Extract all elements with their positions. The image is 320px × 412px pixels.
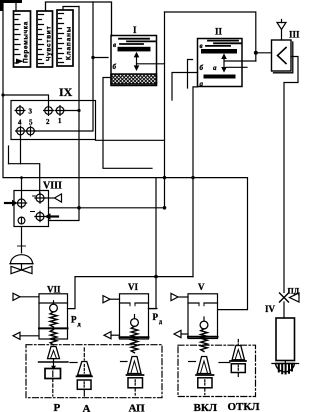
svg-text:I: I bbox=[133, 25, 137, 35]
svg-text:Перемычка: Перемычка bbox=[23, 21, 30, 63]
wire from block I membrane down and right bbox=[103, 78, 152, 169]
block VIII box bbox=[14, 191, 49, 227]
svg-text:2: 2 bbox=[46, 118, 50, 126]
A seat bbox=[77, 375, 93, 377]
svg-text:IV: IV bbox=[265, 304, 276, 314]
svg-text:а: а bbox=[200, 80, 204, 88]
VII spring lower bbox=[50, 330, 57, 345]
V vent in triangle bbox=[171, 293, 188, 300]
net V3: block II bottom to V feed line bbox=[193, 87, 198, 277]
label Pd VII bbox=[71, 315, 81, 329]
turbine symbol bbox=[272, 361, 299, 374]
indicator G2 (Чувствит) bbox=[37, 11, 53, 67]
wire bus y=95 into terminal 2 bbox=[3, 95, 49, 107]
V spring bbox=[201, 329, 208, 352]
label VI bbox=[128, 282, 138, 292]
junction wire A / VIII stub bbox=[21, 178, 23, 200]
indicator G3 (Клапаны) bbox=[57, 10, 73, 66]
block III vent triangle bbox=[277, 20, 286, 41]
junction (79,110.5) bbox=[77, 109, 80, 112]
OTKL stem bottom bbox=[237, 373, 239, 377]
block II label bbox=[215, 27, 223, 37]
wire y=163.7 to VIII circle B bbox=[9, 164, 40, 195]
block I black bar bbox=[118, 47, 151, 52]
wire L1: VIII to x=164.5 bbox=[49, 207, 165, 209]
wire A: from indicator 1 down left edge, across y=177.5, to block V input bbox=[3, 3, 248, 310]
label IV bbox=[265, 304, 276, 314]
block V box bbox=[188, 294, 218, 339]
label 2 bbox=[46, 118, 50, 126]
svg-text:Чувствит: Чувствит bbox=[46, 26, 53, 61]
block II letter б bbox=[200, 64, 204, 72]
svg-text:АП: АП bbox=[129, 403, 146, 412]
PD valve triangle bbox=[290, 293, 300, 302]
cylinder IV bbox=[276, 318, 295, 361]
VI spring bbox=[131, 326, 138, 352]
block I letter в bbox=[113, 41, 116, 49]
svg-text:VIII: VIII bbox=[43, 181, 62, 192]
AP tick left bbox=[121, 361, 128, 363]
VIII input arrow left bbox=[5, 200, 18, 207]
AP box bbox=[128, 378, 143, 388]
AP seat bbox=[127, 374, 144, 376]
OTKL seat bbox=[230, 360, 246, 362]
svg-text:IX: IX bbox=[59, 85, 73, 99]
VII vent in triangle bbox=[13, 293, 39, 300]
label 3 bbox=[29, 108, 33, 116]
block II letter а bottom bbox=[200, 80, 204, 88]
svg-text:в: в bbox=[113, 41, 116, 49]
label AP bbox=[129, 403, 146, 412]
label V bbox=[198, 282, 205, 292]
feed line W_V y=276.6 bbox=[68, 277, 194, 309]
block III output wire down to PD valve bbox=[284, 57, 298, 293]
block II left input wire bbox=[172, 73, 198, 101]
svg-text:А: А bbox=[83, 403, 91, 412]
block II box bbox=[198, 39, 243, 87]
vertical net x=164.5 (blockI/II to L1) bbox=[164, 12, 166, 208]
VIII right arrow bbox=[45, 213, 59, 220]
control valve body (bowtie) bbox=[11, 264, 32, 274]
block III box (relay amplifier) bbox=[272, 40, 293, 73]
wire from G2 top to x=93 drop bbox=[46, 2, 112, 36]
svg-text:VII: VII bbox=[47, 285, 61, 295]
svg-text:а: а bbox=[213, 64, 217, 72]
label OTKL bbox=[228, 401, 261, 412]
svg-text:1: 1 bbox=[58, 117, 62, 125]
block III label bbox=[289, 30, 300, 40]
block II output wires bbox=[225, 61, 256, 67]
svg-text:д: д bbox=[78, 322, 81, 328]
terminal 4 bbox=[16, 126, 26, 136]
wire stub x=8.5 bbox=[8, 146, 10, 164]
OTKL box bbox=[231, 364, 245, 373]
terminal 1 bbox=[55, 106, 65, 116]
terminal 2 bbox=[44, 106, 54, 116]
VIII circle A (with input arrow P) bbox=[16, 198, 26, 208]
block IX box bbox=[11, 101, 96, 140]
svg-text:Р: Р bbox=[153, 312, 159, 322]
block II flapper arrow bbox=[221, 53, 227, 72]
A box bbox=[77, 380, 91, 389]
junction at (3,95) bbox=[1, 93, 4, 96]
block II letter а mid bbox=[213, 64, 217, 72]
wire from G3 top over to vertical x=79 bbox=[63, 7, 79, 11]
VI poppet circle bbox=[131, 315, 139, 327]
junction dot (255.8,52.8) bbox=[254, 51, 258, 55]
svg-text:3: 3 bbox=[29, 108, 33, 116]
stub wire into block I left at y=57.5 bbox=[93, 57, 108, 59]
VI vent in triangle bbox=[103, 296, 120, 303]
block VI box bbox=[120, 294, 149, 339]
VKL stem bottom bbox=[204, 388, 206, 395]
V poppet circle bbox=[200, 317, 208, 329]
OTKL plug cone bbox=[232, 346, 244, 360]
P dashed stem bbox=[52, 379, 54, 397]
OTKL dashed stem top bbox=[237, 340, 239, 346]
wire PD to cylinder bbox=[283, 302, 285, 318]
PD valve X bbox=[280, 293, 289, 302]
junction dot (164.5,177.6) bbox=[163, 176, 166, 179]
svg-text:ВКЛ: ВКЛ bbox=[194, 402, 218, 412]
vertical bus x=79 from G3 to VIII block bbox=[49, 7, 80, 221]
dash marks inside VIII bbox=[31, 196, 36, 212]
label P bbox=[54, 402, 61, 412]
svg-text:V: V bbox=[198, 282, 205, 292]
dashed enclosure 1 (P A AP) bbox=[26, 345, 162, 398]
label A bbox=[83, 403, 91, 412]
block I label bbox=[133, 25, 137, 35]
block II black bar bbox=[201, 49, 237, 54]
VKL tick left bbox=[189, 361, 196, 363]
control valve stem bbox=[18, 227, 26, 253]
label 5 bbox=[29, 119, 33, 127]
OTKL tick left bbox=[219, 362, 230, 364]
VII spring upper bbox=[50, 312, 57, 327]
V vent out triangle bbox=[174, 330, 188, 337]
VII plug cone bbox=[48, 347, 60, 359]
block I nozzle lines bbox=[119, 39, 155, 44]
label 4 bbox=[18, 119, 22, 127]
block I flapper arrow bbox=[134, 52, 140, 71]
VIII vent line and triangle bbox=[44, 194, 62, 202]
junction (79,207.8) bbox=[77, 206, 81, 210]
AP plug cone bbox=[128, 357, 141, 374]
svg-text:5: 5 bbox=[29, 119, 33, 127]
VIII circle B (to vent) bbox=[35, 193, 45, 203]
VIII circle D (to valve) bbox=[18, 217, 25, 224]
VIII circle C (with input arrow from right) bbox=[35, 211, 45, 221]
label Pd VI bbox=[153, 312, 163, 326]
junction dot (193,177.6) bbox=[191, 176, 194, 179]
control valve actuator dome bbox=[10, 255, 33, 264]
svg-text:II: II bbox=[215, 27, 223, 37]
junction (156,276.6) bbox=[154, 275, 158, 279]
junction (93,57.5) bbox=[91, 56, 94, 59]
block VII box bbox=[39, 294, 68, 339]
VII vent out triangle bbox=[13, 332, 39, 339]
VKL plug cone bbox=[197, 357, 210, 374]
VII stem to switch box bbox=[51, 359, 56, 370]
A stem bottom bbox=[83, 389, 85, 396]
VKL box bbox=[198, 378, 212, 388]
net V_b x=156 from wire A to VI bbox=[149, 178, 157, 309]
VI vent out triangle bbox=[104, 332, 120, 339]
block II б stub bbox=[188, 60, 193, 89]
wire IX box bottom extension to x=164.5 bbox=[96, 139, 165, 141]
block I letter б bbox=[113, 63, 117, 71]
A plug cone bbox=[78, 362, 91, 376]
svg-text:б: б bbox=[200, 64, 204, 72]
corner smudge bbox=[0, 0, 22, 11]
junction (21.5,177.6) bbox=[20, 176, 23, 179]
svg-text:д: д bbox=[159, 320, 162, 326]
svg-text:Клапаны: Клапаны bbox=[66, 26, 73, 60]
svg-text:VI: VI bbox=[128, 282, 138, 292]
VII seat line bbox=[39, 361, 69, 363]
svg-text:б: б bbox=[113, 63, 117, 71]
svg-text:ОТКЛ: ОТКЛ bbox=[228, 401, 261, 412]
block II bottom bar bbox=[204, 75, 236, 79]
switch box P bbox=[45, 369, 61, 379]
wire into block III bbox=[256, 52, 272, 54]
block II nozzle lines bbox=[206, 41, 241, 46]
label IX bbox=[59, 85, 73, 99]
A tick left bbox=[70, 362, 77, 364]
VI right tick bbox=[149, 308, 158, 310]
label VII bbox=[47, 285, 61, 295]
block I membrane (hatched) bbox=[111, 74, 157, 84]
svg-text:в: в bbox=[200, 42, 203, 50]
junction dot L1 end bbox=[163, 206, 167, 210]
AP stem bottom bbox=[134, 388, 136, 395]
block I box bbox=[111, 36, 157, 86]
terminal 3 bbox=[15, 106, 25, 116]
wire drop x=93 to circle 5 bbox=[34, 2, 93, 131]
terminal 5 bbox=[26, 126, 36, 136]
svg-text:III: III bbox=[289, 30, 300, 40]
VII poppet circle bbox=[50, 301, 58, 312]
label PD bbox=[288, 287, 300, 296]
svg-text:Р: Р bbox=[54, 402, 61, 412]
label VKL bbox=[194, 402, 218, 412]
wire y=12 across top bbox=[165, 12, 256, 61]
svg-text:Р: Р bbox=[71, 315, 77, 325]
wire terminal1 to x79 bbox=[64, 110, 79, 112]
indicator G1 (Перемычка) bbox=[14, 11, 31, 67]
label 1 bbox=[58, 117, 62, 125]
block I output wire to x=164.5 bbox=[137, 63, 165, 65]
label VIII bbox=[43, 181, 62, 192]
dashed enclosure 2 (VKL OTKL) bbox=[178, 345, 256, 396]
block II letter в bbox=[200, 42, 203, 50]
A symbol dashed stem bbox=[83, 348, 85, 360]
VKL seat bbox=[196, 374, 214, 376]
wire terminal4 down bbox=[20, 135, 22, 164]
svg-text:4: 4 bbox=[18, 119, 22, 127]
